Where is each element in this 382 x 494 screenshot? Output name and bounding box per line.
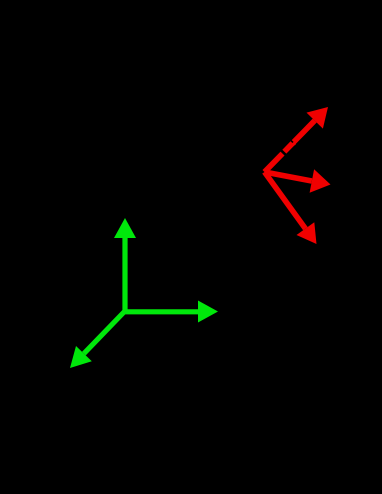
green right axis arrowhead (198, 301, 218, 323)
wire green down-left axis shaft (84, 311, 125, 354)
green axes group (70, 218, 218, 368)
red lower arrowhead (297, 222, 317, 244)
wire red upper shaft partial-notch fill (292, 142, 295, 145)
wire red middle arrow shaft (265, 172, 312, 181)
node green origin (123, 309, 128, 314)
red arrow fan group (265, 107, 331, 244)
wire green up axis shaft (122, 238, 127, 311)
green down-left axis arrowhead (70, 346, 92, 368)
green up axis arrowhead (114, 218, 136, 238)
wire red lower arrow shaft (265, 172, 306, 229)
red upper arrowhead (307, 107, 329, 129)
wire green right axis shaft (125, 309, 198, 314)
red middle arrowhead (310, 169, 331, 193)
wire red upper arrow shaft (with small gaps) (265, 121, 315, 172)
